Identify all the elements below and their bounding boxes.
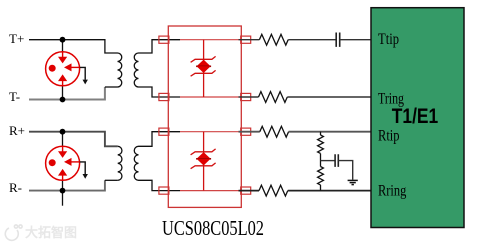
wire node to capacitor C2 bbox=[321, 160, 336, 162]
surge arrester GDT2 bbox=[46, 146, 80, 180]
wire pin5 to resistor R4 bbox=[239, 190, 260, 192]
wire tap from Rtip to R5 bbox=[320, 132, 322, 135]
resistor R3 bbox=[260, 126, 289, 137]
wire R1 to capacitor C1 bbox=[288, 39, 336, 41]
svg-text:Rtip: Rtip bbox=[378, 127, 400, 144]
wire pin7 to resistor R2 bbox=[239, 96, 259, 98]
wire vertical through arrester GDT1 bbox=[62, 40, 64, 100]
transformer T1 primary bottom lead bbox=[105, 86, 118, 88]
pin 6 bbox=[241, 128, 251, 135]
transformer T1 primary winding bbox=[118, 53, 122, 87]
svg-text:UCS08C05L02: UCS08C05L02 bbox=[162, 216, 264, 240]
svg-text:大拓智图: 大拓智图 bbox=[25, 225, 77, 240]
pin 2 bbox=[159, 93, 169, 100]
TVS module internal line row3 bbox=[180, 131, 239, 133]
transformer T2 primary winding bbox=[118, 146, 122, 180]
pin 7 bbox=[241, 93, 251, 100]
pin 4 bbox=[159, 187, 169, 194]
transformer T1 secondary leads bbox=[139, 40, 181, 97]
capacitor C2 bbox=[335, 154, 338, 167]
wire R4 to T1/E1 Rring bbox=[288, 190, 371, 192]
watermark logo bbox=[5, 225, 22, 240]
wire R- line bbox=[29, 180, 105, 190]
resistor R4 bbox=[259, 185, 288, 196]
pin 1 bbox=[159, 36, 169, 43]
wire R3 to T1/E1 Rtip bbox=[289, 131, 371, 133]
transformer T2 secondary leads bbox=[139, 132, 181, 191]
transformer T1 secondary winding bbox=[134, 53, 138, 87]
TVS module internal line row1 bbox=[180, 39, 239, 41]
TVS diode D1 vertical lead bbox=[203, 40, 205, 97]
transformer T2 primary bottom lead bbox=[105, 179, 118, 181]
junction R- bbox=[60, 188, 66, 194]
svg-text:T-: T- bbox=[9, 89, 20, 104]
wire T+ line bbox=[29, 40, 118, 53]
arrow pointer at GDT2 bbox=[80, 162, 88, 179]
junction T- bbox=[60, 97, 66, 103]
arrow pointer at GDT1 bbox=[80, 67, 88, 84]
svg-text:T1/E1: T1/E1 bbox=[392, 105, 439, 128]
svg-text:Ttip: Ttip bbox=[378, 31, 399, 48]
svg-text:R-: R- bbox=[9, 180, 22, 195]
TVS module internal line row4 bbox=[180, 190, 239, 192]
svg-text:T+: T+ bbox=[9, 31, 24, 46]
TVS diode D2 bbox=[191, 149, 216, 169]
junction T+ bbox=[60, 37, 66, 43]
pin 3 bbox=[159, 128, 169, 135]
TVS diode D2 vertical lead bbox=[203, 132, 205, 191]
pin 8 bbox=[241, 36, 251, 43]
resistor R5 bbox=[318, 135, 324, 153]
wire C2 to ground bbox=[338, 161, 352, 180]
junction R+ bbox=[60, 129, 66, 135]
transformer T2 secondary winding bbox=[134, 146, 138, 180]
wire T- line bbox=[29, 87, 105, 100]
wire vertical through arrester GDT2 bbox=[62, 132, 64, 191]
T1/E1 framer block bbox=[371, 8, 464, 228]
ground bbox=[348, 180, 358, 184]
wire R2 to T1/E1 Tring bbox=[287, 96, 371, 98]
surge arrester GDT1 bbox=[46, 52, 80, 86]
TVS module internal line row2 bbox=[180, 96, 239, 98]
TVS diode D1 bbox=[191, 56, 216, 76]
pin 5 bbox=[241, 187, 251, 194]
svg-text:Rring: Rring bbox=[378, 182, 406, 199]
resistor R2 bbox=[259, 92, 288, 103]
wire C1 to T1/E1 Ttip bbox=[340, 39, 371, 41]
resistor R6 bbox=[318, 167, 324, 185]
wire R5 to node bbox=[320, 154, 322, 167]
wire R6 to Rring bbox=[320, 185, 322, 191]
wire stub below R- junction bbox=[62, 191, 64, 206]
capacitor C1 bbox=[336, 33, 340, 47]
svg-text:R+: R+ bbox=[9, 123, 25, 138]
resistor R1 bbox=[259, 34, 288, 45]
TVS module U1 box UCS08C05L02 bbox=[168, 26, 241, 207]
wire pin6 to resistor R3 bbox=[239, 131, 260, 133]
wire R+ line bbox=[29, 132, 118, 147]
wire pin8 to resistor R1 bbox=[239, 39, 260, 41]
